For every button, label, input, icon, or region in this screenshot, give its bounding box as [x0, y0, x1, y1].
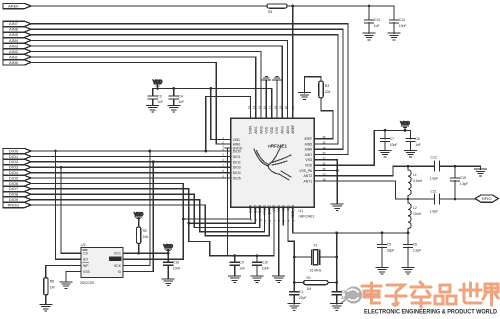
- svg-text:C1: C1: [299, 290, 303, 294]
- svg-text:HOLD: HOLD: [112, 257, 122, 261]
- ground (C16): [162, 279, 174, 286]
- junction VCC/C16: [167, 252, 170, 255]
- junction node B rail tap: [335, 232, 338, 235]
- resistor R4 (series on AREF): [267, 4, 287, 14]
- svg-text:1nF: 1nF: [179, 100, 185, 104]
- svg-text:DIO1: DIO1: [233, 155, 241, 159]
- ground (C9): [229, 276, 241, 283]
- wire VDD rail (top): [153, 89, 272, 119]
- capacitor C7: [380, 130, 397, 150]
- svg-text:1M: 1M: [307, 287, 312, 291]
- wire EEPROM SCK riser (taps DIO0 line): [129, 151, 150, 265]
- port DIO4: [3, 170, 31, 175]
- capacitor C16: [164, 253, 181, 279]
- svg-text:DIO4: DIO4: [233, 171, 241, 175]
- svg-text:AIN7: AIN7: [9, 21, 19, 26]
- svg-text:C10: C10: [262, 261, 268, 265]
- junction SI tap: [152, 160, 155, 163]
- wire VCC net: [129, 252, 168, 254]
- svg-text:AIN2: AIN2: [9, 49, 19, 54]
- svg-text:AIN6: AIN6: [9, 27, 19, 32]
- resistor R5 (WP pulldown): [44, 278, 55, 305]
- ground (C1): [288, 304, 300, 311]
- Nordic bird logo: [254, 146, 291, 180]
- svg-text:VSS: VSS: [277, 204, 281, 212]
- svg-text:C8: C8: [415, 137, 419, 141]
- svg-text:AIN3: AIN3: [281, 126, 285, 134]
- svg-text:C9: C9: [239, 261, 243, 265]
- svg-text:C5: C5: [387, 243, 391, 247]
- wire node B rail: [336, 233, 338, 292]
- svg-text:PROG: PROG: [263, 204, 267, 214]
- svg-text:10nF: 10nF: [390, 143, 398, 147]
- svg-text:22pF: 22pF: [299, 296, 307, 300]
- wire XC2 long net to L2: [293, 207, 408, 233]
- svg-text:1uF: 1uF: [374, 24, 380, 28]
- svg-text:DIO8: DIO8: [9, 192, 19, 197]
- junction R2/VCC: [137, 252, 140, 255]
- capacitor C3: [148, 89, 163, 106]
- junction VDD sym: [156, 87, 159, 90]
- svg-text:DIO6: DIO6: [9, 181, 19, 186]
- port AIN2: [3, 49, 31, 54]
- wire AIN4 to chip top pin: [31, 40, 288, 118]
- inductor L2: [408, 199, 422, 233]
- eeprom U2: [75, 243, 129, 285]
- svg-text:DIO9: DIO9: [249, 126, 253, 134]
- port AIN7: [3, 21, 31, 26]
- wire DIO1 line: [31, 155, 225, 157]
- svg-text:1.0pF: 1.0pF: [430, 209, 439, 213]
- svg-text:33: 33: [323, 151, 327, 155]
- wire RF bottom rail right of C11: [440, 198, 476, 200]
- junction DIO9 tap: [204, 150, 207, 153]
- wire DIO6 to bottom pin 1: [31, 183, 183, 259]
- svg-text:DIO2: DIO2: [9, 159, 19, 164]
- ground up (top VSS pin 6): [273, 76, 281, 118]
- wire VDD drop to chip left pin 1: [211, 89, 225, 140]
- svg-text:AIN4: AIN4: [286, 126, 290, 134]
- wire EEPROM SI riser (taps DIO2 line): [129, 162, 153, 272]
- svg-text:12: 12: [249, 218, 253, 222]
- power VDD (RF rail): [400, 121, 409, 131]
- capacitor C8: [406, 130, 421, 150]
- svg-text:C13: C13: [374, 18, 380, 22]
- svg-text:DIO5: DIO5: [233, 177, 241, 181]
- wire staircase bottom pin1 to DIO6 vertical: [183, 207, 250, 219]
- svg-text:10nF: 10nF: [173, 266, 181, 270]
- wire VSS_PA: [321, 169, 337, 171]
- port DIO1: [3, 154, 31, 159]
- port RFIO: [475, 195, 498, 202]
- svg-text:DIO0: DIO0: [9, 148, 19, 153]
- wire right VDD to decoupling rail: [321, 130, 410, 165]
- wire DIO2 line: [31, 161, 225, 163]
- ground up (top VSS pin 4): [262, 76, 270, 118]
- ground (C6): [402, 268, 414, 275]
- svg-text:1.5pF: 1.5pF: [460, 182, 469, 186]
- svg-text:C11: C11: [431, 190, 437, 194]
- junction C15 bottom: [454, 198, 457, 201]
- capacitor C1: [290, 290, 307, 304]
- port AIN4: [3, 38, 31, 43]
- ground (RF top rail): [480, 166, 482, 169]
- port AIN0: [3, 60, 31, 65]
- svg-text:C7: C7: [390, 137, 394, 141]
- svg-text:IREF: IREF: [304, 137, 312, 141]
- junction C15 top: [454, 165, 457, 168]
- wire staircase bottom pin2 to DIO7 vertical: [189, 207, 255, 223]
- ground (C7): [379, 150, 391, 157]
- svg-text:C16: C16: [173, 261, 179, 265]
- char shi: [460, 289, 481, 292]
- svg-text:VSS: VSS: [275, 126, 279, 134]
- chip bottom pin labels: [249, 204, 296, 221]
- svg-text:C4: C4: [179, 94, 183, 98]
- inductor L1: [408, 166, 423, 199]
- svg-text:34: 34: [323, 146, 327, 150]
- wire DIO9 up-and-over to top pin 1: [206, 97, 251, 152]
- svg-text:16: 16: [263, 105, 267, 109]
- svg-text:22k: 22k: [325, 90, 331, 94]
- wire ANT1 to RF bottom rail: [321, 181, 434, 199]
- wire DIO8 to bottom pin 3: [31, 194, 194, 227]
- wire AIN5 to chip right pin: [31, 35, 338, 144]
- wire AIN3 to chip top pin: [31, 46, 282, 118]
- svg-text:DIO4: DIO4: [9, 170, 19, 175]
- capacitor C12 (series): [430, 156, 440, 181]
- svg-text:DIO9: DIO9: [9, 197, 19, 202]
- resistor R3 (IREF): [305, 77, 334, 139]
- wire DVDD rail: [227, 148, 229, 256]
- svg-text:AIN3: AIN3: [9, 43, 19, 48]
- svg-text:SO: SO: [83, 258, 88, 262]
- junction CS tap: [60, 166, 63, 169]
- wire AREF net: [31, 5, 394, 7]
- chip left pin stubs: [225, 140, 231, 179]
- wire EEPROM SO tap (vertical): [56, 151, 76, 259]
- ground (C4): [168, 106, 180, 113]
- port PROG: [3, 202, 31, 207]
- svg-text:XC1: XC1: [286, 205, 290, 212]
- svg-text:3.6nH: 3.6nH: [413, 179, 423, 183]
- ground (R5): [40, 305, 52, 312]
- port DIO7: [3, 186, 31, 191]
- port DIO9: [3, 197, 31, 202]
- svg-text:VSS_PA: VSS_PA: [299, 169, 313, 173]
- wire WP net: [46, 265, 75, 277]
- svg-text:VDD: VDD: [233, 138, 241, 142]
- power VDD (U2 VCC): [164, 244, 173, 254]
- junction L1 top: [407, 165, 410, 168]
- svg-text:15: 15: [257, 105, 261, 109]
- svg-text:25C020: 25C020: [80, 280, 95, 285]
- svg-text:VSS: VSS: [83, 270, 91, 274]
- wire right VSS to ground: [321, 160, 337, 204]
- svg-text:ANT1: ANT1: [304, 179, 313, 183]
- wire AIN7 to chip right pin: [31, 24, 348, 155]
- svg-text:10nH: 10nH: [413, 212, 422, 216]
- svg-text:VDD_PA: VDD_PA: [291, 204, 295, 218]
- svg-text:AIN0: AIN0: [9, 60, 19, 65]
- junction C9 tap: [233, 254, 236, 257]
- port AIN3: [3, 43, 31, 48]
- port AIN5: [3, 32, 31, 37]
- svg-text:19: 19: [279, 105, 283, 109]
- wire AIN0 to chip left pin 2: [31, 62, 225, 144]
- junction staircase/DIO7: [187, 222, 190, 225]
- char dian: [362, 285, 381, 288]
- chip top pin labels: [247, 105, 295, 133]
- svg-text:1nF: 1nF: [415, 143, 421, 147]
- svg-text:R5: R5: [50, 280, 54, 284]
- junction VDD drop to left pin1: [209, 87, 212, 90]
- svg-text:U2: U2: [81, 243, 86, 247]
- svg-text:VSS: VSS: [305, 158, 313, 162]
- svg-text:33pF: 33pF: [387, 249, 395, 253]
- junction C7 tap: [384, 129, 387, 132]
- junction node B / crystal: [335, 256, 338, 259]
- svg-text:20: 20: [284, 105, 288, 109]
- port AREF: [3, 3, 31, 8]
- svg-text:DIO3: DIO3: [9, 165, 19, 170]
- wire DIO0 line: [31, 150, 225, 152]
- svg-text:AIN1: AIN1: [9, 54, 19, 59]
- svg-text:R4: R4: [268, 10, 272, 14]
- ground (C3): [147, 106, 159, 113]
- svg-text:VCC: VCC: [114, 252, 122, 256]
- svg-text:VSS: VSS: [265, 126, 269, 134]
- svg-text:1M: 1M: [50, 285, 55, 289]
- ground (right VSS): [331, 204, 343, 211]
- wire staircase bottom pin5 to PROG vertical: [205, 207, 269, 236]
- svg-text:17: 17: [268, 105, 272, 109]
- ground (C8): [405, 150, 417, 157]
- wire DIO3 line: [31, 166, 225, 168]
- junction SO tap: [54, 150, 57, 153]
- svg-text:CS: CS: [83, 252, 88, 256]
- wire AIN1 to chip top pin: [31, 57, 256, 118]
- wire ANT2 to RF top rail: [321, 166, 434, 176]
- svg-text:2.2pF: 2.2pF: [413, 249, 422, 253]
- junction C6/L2: [407, 232, 410, 235]
- ground (bottom VSS): [273, 276, 285, 283]
- chip right pin labels: [299, 135, 326, 183]
- char chan: [420, 282, 423, 285]
- ground (C14): [388, 33, 400, 40]
- svg-text:C6: C6: [413, 243, 417, 247]
- capacitor C4: [169, 89, 184, 106]
- chip right pin stubs: [314, 139, 321, 181]
- capacitor C13: [364, 6, 380, 33]
- svg-text:AREF: AREF: [291, 125, 295, 134]
- junction staircase/DIO6: [182, 218, 185, 221]
- ground (R3): [299, 93, 311, 100]
- svg-text:DIO5: DIO5: [9, 175, 19, 180]
- wire DIO5 line: [31, 177, 225, 179]
- capacitor C11 (series): [430, 190, 440, 214]
- svg-text:14: 14: [252, 105, 256, 109]
- svg-text:PROG: PROG: [8, 202, 20, 207]
- wire XC1 to crystal node A: [288, 207, 294, 292]
- power VDD (rail): [153, 79, 162, 89]
- watermark EEPW logo disc: [342, 286, 362, 303]
- svg-text:10nF: 10nF: [262, 266, 270, 270]
- svg-text:DIO3: DIO3: [233, 166, 241, 170]
- svg-text:C15: C15: [460, 176, 466, 180]
- junction AREF/pin drop: [291, 5, 294, 8]
- watermark chinese characters: [362, 282, 498, 307]
- port DIO3: [3, 165, 31, 170]
- wire AREF drop to top pin 9: [292, 6, 294, 118]
- svg-text:X1: X1: [313, 243, 317, 247]
- svg-text:1nF: 1nF: [239, 266, 245, 270]
- char jie: [485, 284, 498, 292]
- ground (C10): [251, 276, 263, 283]
- wire AIN2 to chip top pin: [31, 51, 261, 118]
- ground (C5): [376, 268, 388, 275]
- svg-text:DIO1: DIO1: [9, 154, 19, 159]
- svg-text:AIN5: AIN5: [305, 142, 313, 146]
- svg-text:13: 13: [247, 105, 251, 109]
- wire DIO4 line: [31, 172, 225, 174]
- op-amp U1 nRF24E1 chip body: [231, 118, 315, 218]
- junction C5 tap: [381, 232, 384, 235]
- capacitor C15 (shunt): [450, 166, 468, 199]
- wire staircase bottom pin3 to DIO8 vertical: [194, 207, 260, 227]
- svg-text:AIN4: AIN4: [9, 38, 19, 43]
- junction node B / R1: [335, 281, 338, 284]
- svg-text:WP: WP: [83, 264, 89, 268]
- svg-text:L2: L2: [413, 206, 417, 210]
- port AIN1: [3, 54, 31, 59]
- svg-text:VSS: VSS: [272, 204, 276, 212]
- junction C4 tap: [172, 87, 175, 90]
- wire PROG to bottom pin 5: [31, 205, 205, 236]
- svg-text:XC2: XC2: [282, 205, 286, 212]
- svg-text:1nF: 1nF: [157, 100, 163, 104]
- svg-text:C14: C14: [399, 18, 405, 22]
- port DIO0: [3, 148, 31, 153]
- resistor R2 (pull-up): [134, 212, 148, 254]
- svg-text:RFIO: RFIO: [482, 196, 492, 201]
- svg-text:AIN2: AIN2: [259, 126, 263, 134]
- wire bottom pin7 VSS to ground: [278, 207, 280, 276]
- wire AIN6 to chip right pin: [31, 29, 343, 149]
- svg-text:C3: C3: [157, 94, 161, 98]
- svg-text:DIO7: DIO7: [253, 205, 257, 213]
- char zi: [387, 285, 404, 292]
- junction node A / R1: [293, 281, 296, 284]
- wire DIO9 to bottom pin 4: [31, 200, 200, 232]
- resistor R1: [294, 276, 336, 291]
- capacitor C10: [252, 256, 269, 276]
- svg-text:DVDD: DVDD: [268, 204, 272, 214]
- svg-text:AIN5: AIN5: [9, 32, 19, 37]
- svg-text:11: 11: [254, 218, 258, 221]
- capacitor C6: [403, 233, 421, 268]
- junction AREF/C13: [368, 5, 371, 8]
- svg-text:ANT2: ANT2: [304, 174, 313, 178]
- svg-text:SI: SI: [118, 270, 121, 274]
- svg-text:10k: 10k: [143, 235, 149, 239]
- svg-text:21: 21: [291, 105, 295, 109]
- svg-text:AREF: AREF: [8, 3, 19, 8]
- svg-text:U1: U1: [299, 209, 304, 213]
- junction C10 tap: [256, 254, 259, 257]
- svg-text:10: 10: [258, 218, 262, 222]
- capacitor C14: [389, 6, 406, 33]
- svg-text:DIO6: DIO6: [249, 205, 253, 213]
- svg-text:10nF: 10nF: [399, 24, 407, 28]
- port DIO6: [3, 181, 31, 186]
- svg-text:SCK: SCK: [114, 264, 122, 268]
- ground (C2): [331, 304, 343, 311]
- svg-text:DIO2: DIO2: [233, 160, 241, 164]
- svg-text:18: 18: [273, 105, 277, 109]
- svg-text:DIO7: DIO7: [9, 186, 19, 191]
- wire RF top rail right of C12: [440, 165, 481, 167]
- svg-text:L1: L1: [413, 173, 417, 177]
- svg-text:C12: C12: [431, 156, 437, 160]
- svg-text:AIN7: AIN7: [305, 153, 313, 157]
- junction node A / crystal: [293, 256, 296, 259]
- svg-text:AIN6: AIN6: [305, 148, 313, 152]
- ground (U2 VSS): [60, 282, 72, 289]
- capacitor C5: [377, 233, 394, 268]
- junction SCK tap: [149, 150, 152, 153]
- char pin: [440, 285, 450, 292]
- port DIO2: [3, 159, 31, 164]
- svg-text:35: 35: [323, 141, 327, 145]
- ground (C13): [363, 33, 375, 40]
- svg-text:R1: R1: [307, 276, 311, 280]
- svg-text:R3: R3: [325, 84, 329, 88]
- wire VSS to ground: [66, 272, 75, 282]
- svg-text:VDD: VDD: [305, 164, 313, 168]
- port DIO5: [3, 175, 31, 180]
- svg-text:R2: R2: [143, 229, 147, 233]
- wire bottom pin8 stub: [282, 207, 284, 225]
- junction VDD sym RF: [404, 129, 407, 132]
- svg-text:1.0pF: 1.0pF: [430, 177, 439, 181]
- svg-text:AIN1: AIN1: [254, 126, 258, 134]
- junction VSS_PA: [336, 169, 339, 172]
- capacitor C2: [332, 290, 349, 304]
- port DIO8: [3, 192, 31, 197]
- capacitor C9: [230, 256, 245, 276]
- svg-text:DIO0: DIO0: [233, 150, 241, 154]
- svg-text:ELECTRONIC ENGINEERING & PRODU: ELECTRONIC ENGINEERING & PRODUCT WORLD: [364, 309, 497, 316]
- wire EEPROM CS tap (vertical): [61, 167, 75, 253]
- port AIN6: [3, 27, 31, 32]
- wire staircase bottom pin4 to DIO9 vertical: [200, 207, 265, 232]
- svg-text:VDD: VDD: [270, 126, 274, 134]
- svg-text:nRF24E1: nRF24E1: [268, 143, 287, 148]
- svg-text:16 MHz: 16 MHz: [310, 268, 322, 272]
- wire DIO7 to bottom pin 2: [31, 189, 210, 256]
- svg-text:nRF24E1: nRF24E1: [299, 215, 315, 219]
- junction L1/L2 bottom: [407, 198, 410, 201]
- crystal X1: [294, 243, 336, 272]
- svg-text:DIO8: DIO8: [258, 205, 262, 213]
- chip left pin labels: [222, 136, 243, 181]
